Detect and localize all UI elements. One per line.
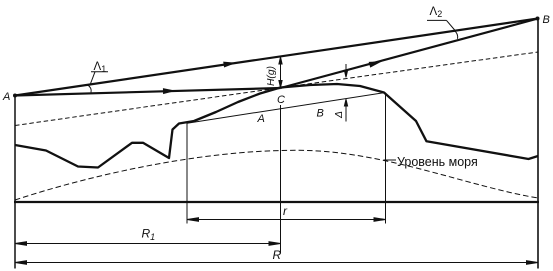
delta dimension verticals with arrows	[344, 64, 347, 122]
ground baseline	[14, 201, 539, 203]
point B dot	[536, 17, 540, 21]
arrow on ray A-C	[163, 88, 176, 94]
refracted ray dashed line through C	[15, 52, 538, 126]
angle mark lambda2	[427, 20, 458, 38]
ray A-C	[15, 88, 281, 96]
dimension R1	[15, 242, 281, 246]
svg-text:C: C	[277, 94, 285, 106]
angle mark lambda1	[88, 72, 109, 93]
antenna mast A vertical	[14, 96, 16, 269]
svg-text:A: A	[2, 91, 10, 103]
extension line at right edge of obstacle	[385, 93, 387, 224]
svg-text:Δ: Δ	[334, 111, 345, 119]
svg-text:R: R	[273, 248, 282, 262]
svg-text:H(g): H(g)	[266, 66, 277, 86]
dimension R	[15, 261, 538, 265]
point A dot	[13, 94, 17, 98]
terrain profile	[15, 84, 538, 168]
arrow on ray C-B	[369, 59, 383, 68]
extension line from C down	[280, 105, 282, 254]
sea level dashed arc	[15, 150, 538, 200]
svg-text:A: A	[257, 113, 265, 125]
ray A-B	[15, 19, 538, 96]
chord line over obstacle	[187, 93, 384, 124]
dimension r	[187, 218, 386, 222]
arrow on ray A-B	[223, 60, 237, 68]
extension line at left edge of obstacle	[186, 122, 188, 223]
svg-text:B: B	[317, 108, 324, 120]
antenna mast B vertical	[537, 19, 539, 269]
clearance H(g) dimension	[279, 57, 282, 88]
svg-text:Уровень моря: Уровень моря	[397, 155, 478, 169]
ray C-B	[281, 19, 539, 89]
sea level leader	[384, 159, 397, 161]
svg-text:B: B	[543, 14, 550, 26]
